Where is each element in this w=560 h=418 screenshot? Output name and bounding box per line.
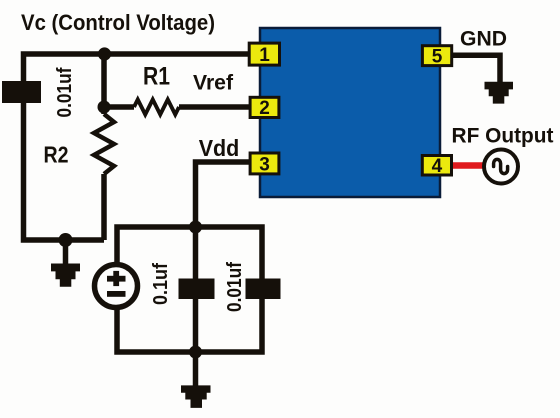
pin 3 xyxy=(249,152,281,176)
capacitor 0.1uf (middle leg) xyxy=(179,279,215,300)
svg-text:RF Output: RF Output xyxy=(452,125,554,148)
svg-text:2: 2 xyxy=(259,98,270,119)
capacitor 0.01uf (right leg) xyxy=(246,279,281,300)
svg-text:R2: R2 xyxy=(44,142,69,168)
svg-text:5: 5 xyxy=(432,46,443,67)
svg-text:0.01uf: 0.01uf xyxy=(54,67,76,117)
wire: decoupling loop xyxy=(117,227,262,352)
node: junction R1/R2 xyxy=(98,101,111,114)
ground (GND, top right) xyxy=(485,82,514,104)
svg-text:0.01uf: 0.01uf xyxy=(224,262,246,312)
wire: junction to R1 and R1 to pin 2 xyxy=(104,104,249,110)
resistor R1 (horizontal zigzag) xyxy=(134,100,179,115)
wire: middle leg through 0.1uf cap xyxy=(193,227,199,352)
node: ground tap on bottom-left rail xyxy=(59,233,73,247)
svg-text:1: 1 xyxy=(259,45,270,66)
wire: red RF output from pin 4 xyxy=(452,162,486,169)
pin 2 xyxy=(249,96,281,119)
RF output port (AC source circle) xyxy=(484,150,518,184)
svg-text:4: 4 xyxy=(432,156,443,177)
pin 1 xyxy=(248,42,281,67)
wire: pin 5 to GND xyxy=(453,55,500,82)
svg-text:Vref: Vref xyxy=(193,71,234,95)
pin 4 xyxy=(421,154,453,177)
wire: top Vc rail, left rail down, bottom-left horizontal to R2 xyxy=(24,54,249,240)
wire: vertical from Vc rail to R1/R2 junction xyxy=(101,54,107,107)
svg-text:GND: GND xyxy=(460,28,507,51)
pin 5 xyxy=(421,44,453,67)
wire: Vdd from pin 3 down to decoupling rail xyxy=(196,162,250,227)
node: junction bottom rail / ground xyxy=(189,346,202,359)
node: junction on Vc rail xyxy=(98,47,111,60)
wire: stub to bottom ground xyxy=(193,352,199,386)
resistor R2 (vertical zigzag) xyxy=(94,114,114,174)
svg-text:R1: R1 xyxy=(143,63,170,91)
IC U1 (blue body) xyxy=(260,28,440,197)
wire: stub to left ground xyxy=(63,240,69,265)
svg-text:0.1uf: 0.1uf xyxy=(150,263,172,305)
node: junction Vdd / top rail xyxy=(189,221,202,234)
capacitor C 0.01uf (left, on rail) xyxy=(2,81,41,103)
svg-text:Vdd: Vdd xyxy=(199,135,240,161)
ground (left) xyxy=(51,264,80,287)
wire: junction down to R2 and R2 down to bottom-left rail xyxy=(101,107,107,240)
ground (bottom) xyxy=(181,385,211,408)
battery V+ (source circle) xyxy=(95,265,138,308)
svg-text:Vc (Control Voltage): Vc (Control Voltage) xyxy=(21,10,215,35)
svg-text:3: 3 xyxy=(259,154,270,175)
